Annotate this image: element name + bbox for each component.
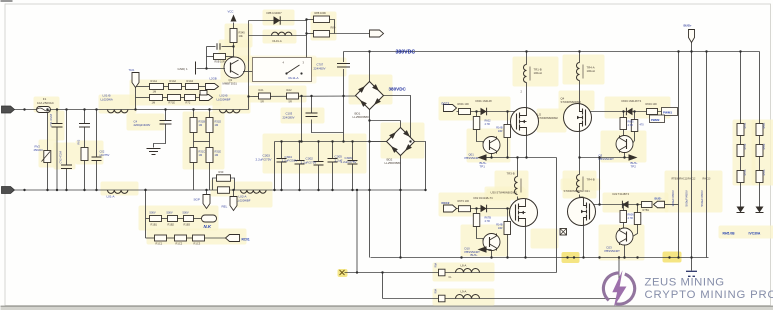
resistor R31E <box>206 148 213 163</box>
svg-text:R8A: R8A <box>435 262 438 267</box>
svg-text:R601 100: R601 100 <box>458 102 470 106</box>
wire cap-bank top rail <box>275 141 388 143</box>
transformer TR4-B <box>577 175 580 193</box>
svg-text:R7B1: R7B1 <box>643 208 650 212</box>
svg-text:TR4-B: TR4-B <box>587 178 595 182</box>
resistor R601 <box>459 109 471 115</box>
svg-text:1M: 1M <box>199 153 203 157</box>
svg-text:1M: 1M <box>199 123 203 127</box>
polarity mark <box>560 229 567 236</box>
resistor R4T2 <box>737 145 744 157</box>
svg-text:PWM1: PWM1 <box>663 111 672 115</box>
transistor Q3 pnp <box>616 136 633 153</box>
wire BUS+ testpoint stub <box>691 42 693 52</box>
svg-text:R6T3 100: R6T3 100 <box>458 199 470 203</box>
capacitor C4 2200pF <box>160 120 172 122</box>
svg-text:R1B2: R1B2 <box>168 223 175 227</box>
svg-text:224/450V: 224/450V <box>314 66 326 70</box>
resistor R1A1 <box>150 84 164 90</box>
svg-text:10R: 10R <box>498 130 503 133</box>
svg-text:R31B: R31B <box>199 120 206 124</box>
wire BD2 left link <box>370 141 388 143</box>
wire C4 branch to earth <box>165 110 167 121</box>
wire BD1 to BD2 link <box>370 120 401 122</box>
wire secondary ground rail <box>371 257 709 259</box>
capacitor CX2 <box>92 156 102 158</box>
wire secondary cap column 1 <box>678 52 680 258</box>
svg-text:RHC13: RHC13 <box>703 178 712 181</box>
wire MOSFET2 source to mid node <box>579 132 581 158</box>
transformer primary stub TR4 <box>579 52 581 63</box>
Zeus Mining logo circle <box>616 274 635 304</box>
svg-text:PBSS5240T: PBSS5240T <box>599 157 615 161</box>
svg-text:2200pF/400V: 2200pF/400V <box>134 123 151 127</box>
svg-text:380VDC: 380VDC <box>396 49 416 55</box>
transistor Q01 pnp <box>483 137 500 154</box>
mosfet U2 <box>511 108 539 136</box>
svg-text:R1C2: R1C2 <box>176 242 183 246</box>
svg-text:L2GB: L2GB <box>210 77 217 81</box>
resistor R606 gate <box>620 211 627 223</box>
wire MOSFET2 drain <box>579 81 581 104</box>
parallel resistor R owb <box>213 178 217 190</box>
svg-text:R9A: R9A <box>435 288 438 293</box>
resistor R31D <box>206 118 213 133</box>
diode D601 <box>481 108 487 116</box>
wire MOSFET1 drain <box>526 83 528 108</box>
port L input <box>2 106 15 113</box>
svg-text:LL020WBF: LL020WBF <box>237 199 251 203</box>
svg-text:R4T1: R4T1 <box>744 122 747 129</box>
resistor R7TC gate <box>634 213 641 225</box>
wire X-cap branch <box>96 110 98 158</box>
wire secondary cap column 2 <box>691 52 693 258</box>
resistor R345 <box>230 29 237 43</box>
svg-text:4.7R: 4.7R <box>628 217 633 220</box>
capacitor bank C304 <box>332 142 334 159</box>
resistor R31C <box>190 148 197 163</box>
svg-text:10R: 10R <box>498 227 503 230</box>
wire MOSFET4 source drop <box>583 226 585 258</box>
svg-text:560uF/450V: 560uF/450V <box>685 190 689 206</box>
bridge rectifier BD1 <box>356 82 384 110</box>
capacitor C103 <box>306 112 318 114</box>
svg-text:R31D: R31D <box>215 120 222 124</box>
transformer TR1-B <box>524 65 527 83</box>
resistor R605 gate <box>620 118 627 130</box>
svg-text:TP1: TP1 <box>480 165 486 169</box>
svg-text:R02: R02 <box>77 139 81 144</box>
svg-text:N.K: N.K <box>204 224 212 229</box>
svg-text:CRYPTO MINING PRO: CRYPTO MINING PRO <box>645 289 773 301</box>
capacitor CY3 <box>79 123 90 125</box>
resistor R6T3 <box>459 206 471 212</box>
wire BUS- port link <box>665 204 679 206</box>
resistor R71 <box>168 95 181 101</box>
transformer primary stub TR1 <box>526 52 528 65</box>
port bleeder top <box>132 73 139 88</box>
svg-text:100uH: 100uH <box>587 69 595 73</box>
svg-text:10k: 10k <box>239 34 244 38</box>
svg-text:1M: 1M <box>215 123 219 127</box>
svg-text:R1B3: R1B3 <box>184 223 191 227</box>
resistor R7TB gate <box>631 120 638 132</box>
svg-text:D62 1N4148+T4: D62 1N4148+T4 <box>474 196 494 200</box>
port DCC2 <box>444 205 457 212</box>
svg-text:5R: 5R <box>289 100 292 104</box>
diode D5T <box>756 207 764 213</box>
svg-text:2.2uF/250V: 2.2uF/250V <box>282 159 299 163</box>
varistor RV2 <box>44 151 51 163</box>
svg-text:LL020WBF: LL020WBF <box>217 98 231 102</box>
svg-text:560uF/450V: 560uF/450V <box>700 190 704 206</box>
port ST <box>370 30 384 37</box>
wire pnp base upper-left <box>476 112 478 117</box>
Zeus Mining logo bolt <box>612 270 626 307</box>
svg-text:SGP: SGP <box>194 198 200 202</box>
wire BD2 bottom drop <box>400 156 402 258</box>
svg-text:MMBT5551: MMBT5551 <box>223 82 238 86</box>
port DCC1 <box>444 105 457 112</box>
inductor DL01 <box>272 32 292 35</box>
resistor R64 chain <box>642 202 653 208</box>
port row B <box>200 95 213 101</box>
svg-text:100uH: 100uH <box>534 71 542 75</box>
svg-text:2.2uF/275V: 2.2uF/275V <box>341 160 358 164</box>
capacitor C707 bulk <box>337 63 350 65</box>
wire mid node right <box>580 157 629 159</box>
svg-text:REL: REL <box>222 205 228 209</box>
transformer TR3-B <box>515 177 518 195</box>
svg-text:ZEUS MINING: ZEUS MINING <box>645 276 725 288</box>
svg-text:380VDC: 380VDC <box>389 87 407 92</box>
wire rail drop B <box>382 273 384 299</box>
mosfet Q4 <box>564 104 592 132</box>
resistor RS2 snubber <box>314 31 330 38</box>
resistor R5T1 <box>756 124 763 136</box>
resistor R1C3 <box>193 235 205 241</box>
wire secondary cap column 3 <box>706 52 708 258</box>
diode D4T <box>737 207 745 213</box>
wire REL stub <box>233 190 235 197</box>
resistor R31B <box>190 118 197 133</box>
ground symbol output <box>686 270 697 272</box>
choke L02-B <box>220 110 240 113</box>
wire BD1 right loop <box>384 96 411 142</box>
svg-text:U30 STW48N60DM2: U30 STW48N60DM2 <box>491 191 518 195</box>
svg-text:RTB08/RHC11: RTB08/RHC11 <box>672 178 688 181</box>
svg-text:R72: R72 <box>186 101 191 105</box>
capacitor CY2 <box>61 164 72 166</box>
choke L02-A <box>241 190 267 193</box>
svg-text:DCC1: DCC1 <box>442 102 450 106</box>
svg-text:DL01-A: DL01-A <box>273 39 282 43</box>
svg-text:PBSS5240T: PBSS5240T <box>465 156 481 160</box>
wire pnp emitters <box>491 153 493 158</box>
svg-text:10A 250VAC: 10A 250VAC <box>37 101 55 105</box>
choke L01-B <box>108 110 128 113</box>
transformer TR4-A <box>577 63 580 81</box>
wire R02 branch <box>84 110 86 124</box>
port REL <box>230 197 237 211</box>
svg-text:PWM2: PWM2 <box>651 118 660 122</box>
wire Q1 emitter to relay <box>243 71 253 73</box>
svg-text:450VAC: 450VAC <box>34 148 44 152</box>
resistor R1A2 <box>169 84 182 90</box>
resistor RA2 <box>287 93 299 99</box>
net stub box <box>200 91 207 96</box>
port BUS- lower-right <box>654 201 665 208</box>
port RC01 <box>226 235 240 242</box>
arrow BUS- upper-right <box>629 154 638 160</box>
VCC arrow <box>233 23 235 29</box>
resistor RA1 <box>259 93 271 99</box>
wire CY2 branch <box>66 110 68 166</box>
mosfet U30 <box>510 199 538 227</box>
svg-text:TP2: TP2 <box>631 165 637 169</box>
svg-text:IVC30A: IVC30A <box>749 232 761 236</box>
wire gate line upper-right <box>586 111 662 113</box>
svg-text:L9-A: L9-A <box>461 290 467 294</box>
wire varistor branch <box>47 110 49 151</box>
inductor L9-A <box>456 295 480 299</box>
wire bleeder row feed <box>135 87 137 110</box>
svg-text:STW48N60DM2: STW48N60DM2 <box>561 100 582 104</box>
svg-text:R71E: R71E <box>169 101 176 105</box>
resistor R02 1M <box>81 148 88 161</box>
port SGP <box>203 195 210 209</box>
bridge rectifier BD2 <box>387 128 415 156</box>
wire gate line lower-left <box>457 208 516 210</box>
svg-text:R1C1: R1C1 <box>156 242 163 246</box>
choke L01-A <box>108 190 128 193</box>
resistor R0B <box>214 54 226 60</box>
transistor Q1 <box>224 57 245 78</box>
wire output rail L8 <box>345 272 557 274</box>
svg-text:R5T3: R5T3 <box>763 169 766 176</box>
svg-text:uF/275V: uF/275V <box>100 153 110 157</box>
resistor RS1 snubber <box>314 16 330 23</box>
svg-text:D22 T4148/T4: D22 T4148/T4 <box>613 192 630 196</box>
svg-text:R5T1: R5T1 <box>763 122 766 129</box>
wire rectifier feed <box>249 95 357 98</box>
svg-text:4.7R: 4.7R <box>628 124 633 127</box>
wire pnp base lower-right <box>637 205 639 213</box>
svg-text:5R: 5R <box>261 100 264 104</box>
wire half-bridge mid riser left <box>556 158 558 273</box>
no-connect cross <box>340 270 345 275</box>
diode D63 <box>622 201 628 209</box>
wire R345 node <box>233 43 235 58</box>
wire Q1 base <box>197 68 226 70</box>
wire half-bridge mid riser right <box>618 258 620 299</box>
wire gate pulldown legs <box>507 112 509 125</box>
svg-text:DCC2: DCC2 <box>442 201 450 205</box>
wire cross link lower-right <box>599 158 601 205</box>
wire MOSFET3 source drop <box>525 227 527 258</box>
wire cap bank mid leg <box>301 96 303 142</box>
wire bulk cap C707 leg <box>343 52 345 63</box>
svg-text:500V: 500V <box>150 211 156 215</box>
resistor R1C2 <box>175 235 187 241</box>
wire pnp base lower-left <box>476 209 478 214</box>
svg-text:RA2: RA2 <box>287 88 293 92</box>
resistor R8A series <box>439 269 446 276</box>
resistor R1A3 <box>186 84 199 90</box>
svg-text:L01-A: L01-A <box>107 195 115 199</box>
resistor R31A <box>150 95 163 101</box>
boxed net label PWM11 <box>662 108 678 116</box>
wire LED column 2 <box>759 52 761 124</box>
wire cap bank left leg <box>274 142 276 191</box>
svg-text:R1A2: R1A2 <box>170 79 177 83</box>
svg-text:R31C: R31C <box>199 150 206 154</box>
relay RL11-A <box>253 58 312 82</box>
wire BD1 top riser <box>369 52 371 82</box>
startup RC branch <box>206 47 208 69</box>
wire startup top loop <box>249 20 307 22</box>
capacitor bank C302 <box>299 142 301 161</box>
svg-text:R345: R345 <box>239 31 246 35</box>
svg-text:R89: R89 <box>331 26 336 30</box>
wire gate line lower-right <box>590 204 642 206</box>
svg-text:R1A3: R1A3 <box>187 79 194 83</box>
svg-text:470: 470 <box>640 124 645 127</box>
resistor R4T3 <box>737 171 744 183</box>
wire NTC bottom rows feed <box>145 190 147 238</box>
wire divider branch A <box>193 110 195 118</box>
wire HV DC bus 380V <box>344 51 760 53</box>
diode D62 <box>481 205 487 213</box>
svg-text:STW48N60DM2: STW48N60DM2 <box>538 116 559 120</box>
diode D88 <box>274 16 281 24</box>
svg-text:R1C3: R1C3 <box>194 242 201 246</box>
resistor R1C1 <box>155 235 167 241</box>
arrow lower-left <box>478 246 487 252</box>
svg-text:RV2: RV2 <box>35 145 41 149</box>
svg-text:PBSS5240T: PBSS5240T <box>605 249 621 253</box>
wire output rail L9 <box>383 298 620 300</box>
inductor L8-A <box>456 269 480 273</box>
svg-text:R88 100K: R88 100K <box>315 11 327 15</box>
svg-text:BUS+: BUS+ <box>684 24 692 28</box>
resistor R9A series <box>439 295 446 302</box>
svg-text:CY2 472M: CY2 472M <box>59 151 63 163</box>
diode D604 <box>626 108 632 116</box>
svg-text:TR3-B: TR3-B <box>507 172 515 176</box>
svg-text:R604 100: R604 100 <box>646 102 658 106</box>
junction dots <box>368 50 370 52</box>
wire gate line upper-left <box>457 111 517 113</box>
arrow BUS- upper-left <box>478 154 487 160</box>
svg-text:RH5.0B: RH5.0B <box>723 232 736 236</box>
wire BD2 right leg <box>414 142 426 191</box>
wire snubber stubs <box>307 19 314 21</box>
svg-text:CY1 472M: CY1 472M <box>49 114 53 126</box>
resistor R6TB gate <box>473 214 480 227</box>
svg-text:R0B 10R: R0B 10R <box>215 61 225 64</box>
svg-text:1M: 1M <box>153 90 157 94</box>
wire TR3 chain <box>517 158 519 177</box>
wire aux riser to startup <box>248 21 250 110</box>
wire AC line L <box>15 109 249 111</box>
svg-text:L8-A: L8-A <box>461 264 467 268</box>
fuse F1 <box>37 107 51 113</box>
svg-text:R5T2: R5T2 <box>763 143 766 150</box>
svg-text:GND( 1: GND( 1 <box>178 67 188 71</box>
wire bus- arrow link upper-left <box>487 157 492 159</box>
capacitor CY1 <box>52 123 63 125</box>
resistor R4T1 <box>737 124 744 136</box>
wire SGP stub <box>206 190 208 195</box>
port row A <box>206 84 219 90</box>
earth ground <box>147 148 161 150</box>
svg-text:LL25DKB80: LL25DKB80 <box>353 115 370 119</box>
wire BD1 bottom chain <box>369 110 371 258</box>
wire relay drop <box>306 36 308 58</box>
wire C103 branch <box>311 96 313 113</box>
svg-text:2.2uF/275V: 2.2uF/275V <box>256 157 273 161</box>
svg-text:R4T2: R4T2 <box>744 143 747 150</box>
svg-text:LL25DKB80: LL25DKB80 <box>385 161 402 165</box>
wire rail drop A <box>356 190 358 273</box>
svg-text:R30: R30 <box>219 170 224 174</box>
svg-text:RHC12: RHC12 <box>688 178 697 181</box>
svg-text:224/280V: 224/280V <box>283 115 295 119</box>
wire divider branch B <box>209 110 211 118</box>
wire MOSFET1 source to mid node <box>526 136 528 158</box>
mosfet D21 <box>568 198 596 226</box>
svg-text:RC01: RC01 <box>242 238 250 242</box>
resistor R1B3 <box>184 216 194 222</box>
boxed net label PWM12 <box>650 115 665 123</box>
svg-text:4.7R: 4.7R <box>485 220 490 223</box>
transistor D10 pnp <box>483 234 500 251</box>
resistor R1B2 <box>168 216 178 222</box>
svg-text:BUS-: BUS- <box>655 197 662 201</box>
svg-text:500V: 500V <box>183 211 189 215</box>
wire pnp base upper-right <box>634 112 636 120</box>
svg-text:R4T3: R4T3 <box>744 169 747 176</box>
svg-text:RA1: RA1 <box>259 88 265 92</box>
wire TR4B chain <box>579 158 581 175</box>
wire mid node left <box>487 157 557 159</box>
port NK jumper <box>202 215 217 222</box>
transistor D23 pnp <box>616 228 633 245</box>
resistor R14C gate <box>504 222 511 235</box>
svg-text:2.2uF/275V: 2.2uF/275V <box>301 160 318 164</box>
resistor R1B1 <box>150 216 162 222</box>
svg-text:4.7R: 4.7R <box>485 123 490 126</box>
capacitor bank C301 <box>281 142 283 159</box>
svg-text:RL11-A: RL11-A <box>289 76 299 80</box>
wire LED column 1 <box>740 52 742 124</box>
svg-text:BUS-: BUS- <box>471 253 478 257</box>
resistor R14B gate <box>504 125 511 138</box>
capacitor bank C305 <box>352 142 354 161</box>
thermistor TH1 on N line <box>218 187 230 194</box>
svg-text:R31E: R31E <box>215 150 222 154</box>
svg-text:D88 1N4007: D88 1N4007 <box>267 11 283 15</box>
svg-text:1M: 1M <box>215 153 219 157</box>
svg-text:LL020WA: LL020WA <box>101 98 113 102</box>
svg-text:D601 1N4148: D601 1N4148 <box>476 99 493 103</box>
resistor R5T3 <box>756 171 763 183</box>
testpoint BUS+ <box>689 30 695 43</box>
capacitor bank C303 <box>318 142 320 162</box>
svg-text:180uF/450V: 180uF/450V <box>671 190 675 206</box>
svg-text:500V: 500V <box>167 211 173 215</box>
